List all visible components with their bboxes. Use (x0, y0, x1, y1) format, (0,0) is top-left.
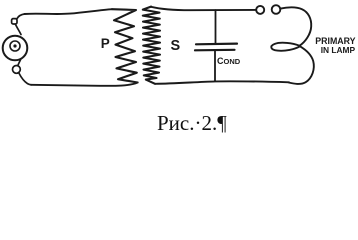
wire terminal-top to top wire (17, 14, 25, 19)
secondary top wire (151, 7, 256, 10)
wire terminal-top to circle (15, 24, 21, 34)
condenser top lead (215, 10, 217, 44)
primary coil P (112, 9, 138, 82)
interrupter center dot (13, 44, 16, 47)
terminal bottom (small circle) (13, 66, 21, 74)
condenser top plate (196, 42, 237, 45)
condenser bottom plate (195, 49, 235, 52)
wire circle to terminal-bottom (18, 59, 21, 66)
secondary bottom wire (155, 81, 289, 84)
condenser bottom lead (214, 50, 216, 81)
caption (157, 111, 227, 136)
primary bottom wire (31, 83, 138, 86)
svg-text:COND: COND (217, 56, 241, 66)
lamp primary loop (271, 7, 314, 84)
interrupter inner circle (10, 41, 20, 51)
secondary coil S (143, 7, 160, 84)
svg-text:IN LAMP: IN LAMP (321, 45, 356, 55)
spark gap ball left (256, 6, 264, 14)
spark gap ball right (272, 5, 281, 14)
svg-text:P: P (101, 36, 110, 51)
svg-text:S: S (171, 38, 181, 54)
wire terminal-bottom to bottom wire (19, 73, 32, 85)
interrupter / buzzer outer circle (3, 36, 28, 61)
terminal top (small square) (12, 19, 17, 24)
primary top wire (25, 9, 113, 14)
